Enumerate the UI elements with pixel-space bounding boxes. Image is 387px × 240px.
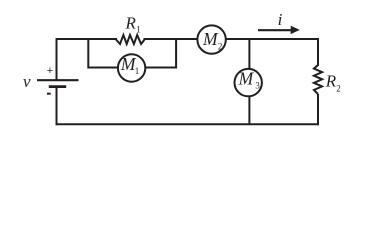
wire: top wire right segment (M2 past node B to top-right corner) — [212, 38, 318, 40]
meter M3 — [235, 69, 262, 96]
label - — [47, 93, 51, 95]
voltage source V: short negative plate — [49, 85, 66, 88]
wire: right vertical upper (top-right corner to R2) — [317, 38, 319, 66]
svg-text:v: v — [23, 72, 31, 91]
wire: right vertical lower (R2 to bottom-right corner) — [317, 94, 319, 125]
svg-text:i: i — [278, 10, 283, 29]
svg-text:M: M — [238, 69, 255, 89]
wire: M1 parallel branch (drop from node, horizontal run, rise back) — [88, 38, 176, 68]
voltage source V: long positive plate — [37, 79, 79, 81]
svg-text:1: 1 — [135, 66, 140, 76]
svg-text:2: 2 — [336, 83, 341, 93]
wire: left vertical (battery - plate down to bottom-left corner) — [56, 87, 58, 126]
current arrow i — [258, 29, 293, 31]
svg-text:3: 3 — [255, 81, 260, 91]
svg-text:R: R — [325, 71, 337, 90]
svg-text:M: M — [202, 29, 219, 49]
svg-text:1: 1 — [136, 24, 141, 34]
wire: bottom wire — [56, 123, 320, 125]
svg-text:2: 2 — [218, 41, 223, 51]
resistor R1 — [116, 35, 145, 44]
svg-text:R: R — [125, 14, 137, 33]
wire: M3 branch (node B down to bottom wire) — [248, 39, 250, 124]
meter M2 — [197, 25, 225, 53]
wire: left vertical (top-left corner down to battery + plate) — [56, 38, 58, 80]
wire: top wire left segment (top-left corner to R1) — [57, 38, 118, 40]
wire: top wire middle segment (R1 to M2) — [144, 38, 213, 40]
meter M1 — [118, 54, 145, 81]
svg-text:+: + — [47, 65, 53, 77]
resistor R2 — [314, 65, 322, 94]
